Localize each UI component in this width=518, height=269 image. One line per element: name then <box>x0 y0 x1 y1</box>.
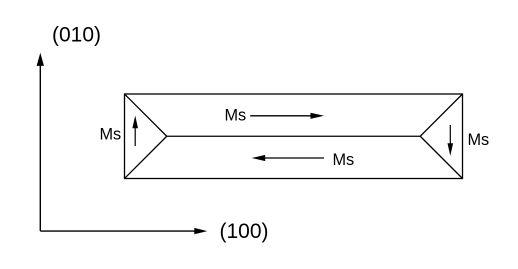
svg-text:Ms: Ms <box>333 151 355 169</box>
diagonal wall bottom-left <box>125 136 167 178</box>
svg-text:(010): (010) <box>52 24 101 47</box>
domain rectangle <box>125 94 463 179</box>
top domain right arrow <box>250 113 324 119</box>
svg-text:(100): (100) <box>220 220 269 243</box>
axis (010) vertical arrow <box>37 53 44 231</box>
svg-text:Ms: Ms <box>468 131 490 149</box>
right domain down arrow <box>448 125 454 156</box>
svg-text:Ms: Ms <box>225 107 247 125</box>
diagonal wall bottom-right <box>420 136 462 178</box>
middle domain wall <box>167 135 421 137</box>
diagonal wall top-right <box>420 94 462 136</box>
bottom domain left arrow <box>252 155 324 161</box>
svg-text:Ms: Ms <box>100 125 122 143</box>
axis (100) horizontal arrow <box>40 228 207 234</box>
left domain up arrow <box>132 116 138 147</box>
diagonal wall top-left <box>125 94 167 136</box>
